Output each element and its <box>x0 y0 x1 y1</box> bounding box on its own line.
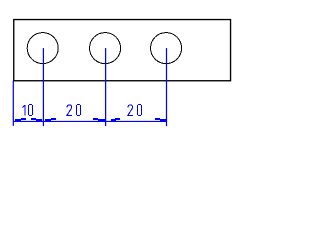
dimension text 10 <box>22 104 33 116</box>
arrowhead left of node 166 pointing right: level step <box>160 119 166 122</box>
hole 3 <box>151 33 182 64</box>
dimension line <box>13 120 167 122</box>
arrowhead at datum pointing left: level step <box>15 119 21 122</box>
centerline hole 1 <box>42 48 44 126</box>
extension line left datum <box>12 81 14 126</box>
arrowhead left of node 43 pointing right: level step <box>36 119 42 122</box>
dimension text 20 second <box>128 104 142 116</box>
centerline hole 3 <box>166 48 168 126</box>
arrowhead at datum pointing left: raised step <box>21 118 26 120</box>
arrowhead left of node 43 pointing right: raised step <box>31 118 36 120</box>
centerline hole 2 <box>105 48 107 126</box>
arrowhead right of node 43 pointing left: raised step <box>51 118 56 120</box>
arrowhead right of node 105 pointing left: raised step <box>115 118 120 120</box>
arrowhead left of node 105 pointing right: level step <box>98 119 105 122</box>
hole 1 <box>27 33 58 64</box>
plate outline <box>14 20 231 81</box>
arrowhead right of node 43 pointing left: level step <box>45 119 51 122</box>
arrowhead left of node 105 pointing right: raised step <box>93 118 98 120</box>
arrowhead right of node 105 pointing left: level step <box>111 119 116 122</box>
dimension text 20 first <box>67 104 81 116</box>
hole 2 <box>90 33 121 64</box>
arrowhead left of node 166 pointing right: raised step <box>155 118 160 120</box>
